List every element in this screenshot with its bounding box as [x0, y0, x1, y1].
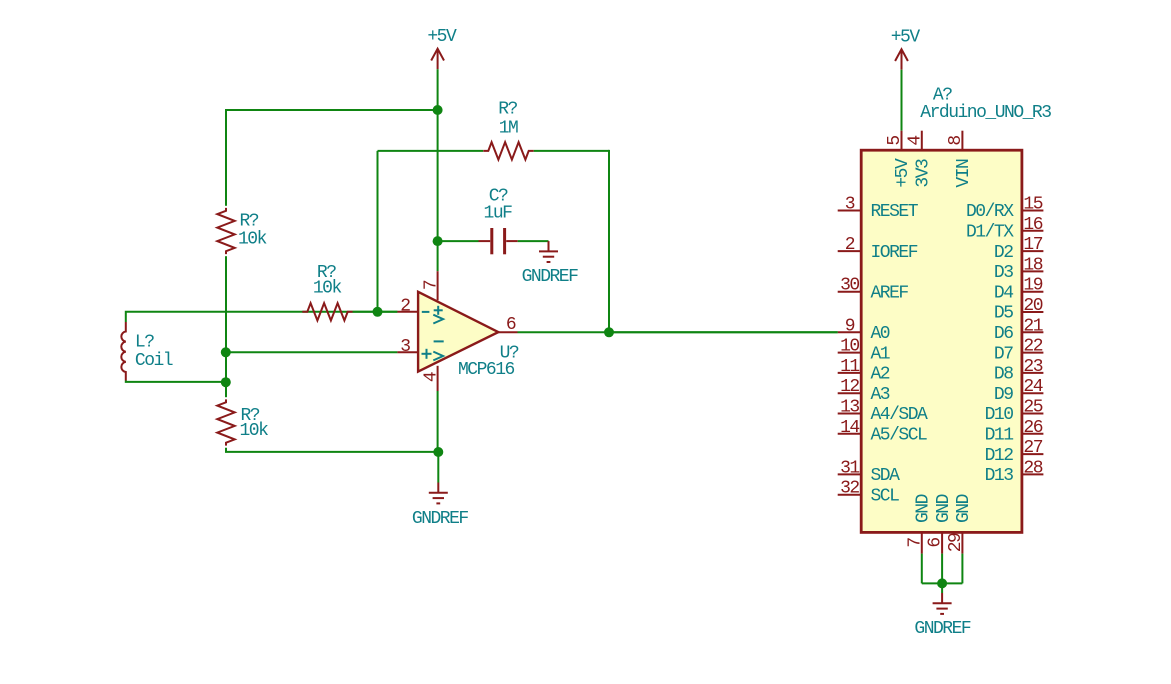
svg-text:31: 31 — [840, 458, 859, 478]
arduino right pin 28 stub — [1022, 473, 1044, 475]
resistor R3 10k (bottom-left) — [217, 399, 234, 445]
wire cap right — [518, 240, 549, 242]
wire 1M right horizontal — [534, 150, 609, 152]
wire R1 bottom to pin3 node — [225, 256, 227, 352]
svg-text:8: 8 — [946, 136, 966, 146]
junction pin2 node — [373, 307, 383, 317]
svg-text:21: 21 — [1023, 316, 1042, 336]
wire coil node to R3 — [225, 382, 227, 397]
wire gnd stub (op-amp) — [437, 452, 439, 483]
arduino left pin 9 stub — [838, 331, 862, 333]
arduino right pin 23 stub — [1022, 372, 1044, 374]
power +5V (left) — [437, 49, 439, 69]
wire output vertical — [608, 150, 610, 332]
arduino top pin 4 stub — [921, 131, 923, 151]
svg-text:D8: D8 — [994, 365, 1013, 385]
svg-text:Arduino_UNO_R3: Arduino_UNO_R3 — [920, 103, 1051, 123]
svg-text:VIN: VIN — [954, 159, 974, 188]
arduino left pin 2 stub — [838, 250, 862, 252]
wire v+ vertical — [437, 110, 439, 241]
wire gnd bus — [922, 582, 963, 584]
svg-text:16: 16 — [1023, 215, 1042, 235]
capacitor C1 plates — [490, 228, 493, 254]
svg-text:AREF: AREF — [871, 283, 909, 303]
wire R2 to pin2 junction — [353, 311, 398, 313]
svg-text:27: 27 — [1023, 438, 1042, 458]
svg-text:D4: D4 — [994, 283, 1013, 303]
op-amp pin 3 stub — [397, 351, 418, 353]
svg-text:MCP616: MCP616 — [458, 360, 515, 380]
wire cap left — [438, 240, 479, 242]
ground GNDREF (capacitor) — [548, 241, 550, 251]
op-amp pin2 name - — [422, 311, 430, 313]
wire op-amp output — [518, 331, 838, 333]
wire gnd pin29 down — [961, 554, 963, 584]
svg-text:19: 19 — [1023, 276, 1042, 296]
svg-text:GNDREF: GNDREF — [914, 619, 971, 639]
wire gnd pin7 down — [921, 554, 923, 584]
wire feedback top horizontal — [378, 150, 484, 152]
arduino right pin 24 stub — [1022, 392, 1044, 394]
svg-text:25: 25 — [1023, 398, 1042, 418]
arduino right pin 20 stub — [1022, 311, 1044, 313]
capacitor C1 leads — [479, 240, 491, 242]
svg-text:D1/TX: D1/TX — [966, 223, 1014, 243]
svg-text:A4/SDA: A4/SDA — [871, 405, 929, 425]
arduino bottom pin 29 stub — [961, 532, 963, 553]
wire left vertical upper — [225, 109, 227, 206]
svg-text:A0: A0 — [871, 324, 890, 344]
wire R3 bottom corner — [226, 448, 438, 452]
arduino left pin 32 stub — [838, 494, 862, 496]
svg-text:D5: D5 — [994, 304, 1013, 324]
svg-text:2: 2 — [845, 235, 855, 255]
arduino right pin 18 stub — [1022, 270, 1044, 272]
svg-text:1M: 1M — [499, 119, 518, 139]
svg-text:5: 5 — [885, 136, 905, 146]
arduino left pin 12 stub — [838, 392, 862, 394]
inductor L1 — [121, 322, 126, 381]
op-amp pin 2 stub — [397, 311, 418, 313]
svg-text:+5V: +5V — [891, 28, 921, 48]
svg-text:A1: A1 — [871, 344, 890, 364]
arduino right pin 21 stub — [1022, 331, 1044, 333]
svg-text:23: 23 — [1023, 357, 1042, 377]
op-amp pin4 name V- — [434, 340, 444, 342]
svg-text:2: 2 — [400, 296, 410, 316]
arduino right pin 19 stub — [1022, 291, 1044, 293]
svg-text:D0/RX: D0/RX — [966, 202, 1014, 222]
wire pin3 row — [226, 351, 398, 353]
svg-text:3: 3 — [400, 337, 410, 357]
arduino top pin 8 stub — [961, 131, 963, 151]
svg-text:SDA: SDA — [871, 466, 901, 486]
svg-text:30: 30 — [840, 276, 859, 296]
svg-text:R?: R? — [498, 100, 517, 120]
junction cap node — [433, 236, 443, 246]
arduino right pin 26 stub — [1022, 433, 1044, 435]
arduino left pin 30 stub — [838, 291, 862, 293]
arduino left pin 11 stub — [838, 372, 862, 374]
junction gnd node (op-amp) — [433, 447, 443, 457]
svg-text:13: 13 — [840, 398, 859, 418]
svg-text:D3: D3 — [994, 263, 1013, 283]
svg-text:D6: D6 — [994, 324, 1013, 344]
svg-text:26: 26 — [1023, 418, 1042, 438]
wire gnd node down — [941, 583, 943, 593]
wire feedback vertical — [377, 151, 379, 312]
svg-text:18: 18 — [1023, 255, 1042, 275]
wire output to A0 — [609, 331, 838, 333]
svg-text:22: 22 — [1023, 337, 1042, 357]
svg-text:10k: 10k — [313, 278, 342, 298]
arduino right pin 27 stub — [1022, 453, 1044, 455]
svg-text:14: 14 — [840, 418, 859, 438]
svg-text:Coil: Coil — [135, 351, 173, 371]
svg-text:GND: GND — [954, 494, 974, 523]
op-amp pin3 name + — [422, 353, 432, 355]
svg-text:3V3: 3V3 — [914, 159, 934, 188]
svg-text:3: 3 — [845, 195, 855, 215]
wire coil bottom corner — [126, 381, 226, 382]
svg-text:6: 6 — [506, 315, 516, 335]
op-amp pin7 name V+ — [434, 309, 443, 311]
svg-text:9: 9 — [845, 316, 855, 336]
svg-text:D12: D12 — [985, 446, 1014, 466]
arduino left pin 10 stub — [838, 352, 862, 354]
op-amp pin 7 stub — [437, 271, 439, 300]
svg-text:D2: D2 — [994, 243, 1013, 263]
svg-text:D13: D13 — [985, 466, 1014, 486]
svg-text:6: 6 — [926, 538, 946, 548]
svg-text:+5V: +5V — [427, 27, 457, 47]
junction +5V node — [433, 105, 443, 115]
resistor R4 1M (feedback) — [483, 142, 533, 159]
svg-text:17: 17 — [1023, 235, 1042, 255]
arduino bottom pin 6 stub — [941, 532, 943, 553]
wire pin4 down — [437, 391, 439, 452]
resistor R1 10k (top-left) — [217, 208, 234, 254]
svg-text:GNDREF: GNDREF — [412, 509, 469, 529]
svg-text:4: 4 — [421, 372, 441, 382]
svg-text:20: 20 — [1023, 296, 1042, 316]
svg-text:D7: D7 — [994, 344, 1013, 364]
ground GNDREF (arduino) — [941, 593, 943, 603]
resistor R2 10k (middle) — [302, 303, 352, 320]
wire +5V stem — [437, 69, 439, 110]
wire arduino +5V stem — [901, 70, 903, 131]
op-amp pin 6 stub — [498, 331, 517, 333]
svg-text:R?: R? — [240, 212, 259, 232]
op-amp U1 triangle — [418, 292, 498, 372]
svg-text:1uF: 1uF — [484, 204, 513, 224]
svg-text:29: 29 — [946, 533, 966, 552]
arduino left pin 3 stub — [838, 210, 862, 212]
junction output node — [604, 327, 614, 337]
arduino bottom pin 7 stub — [921, 532, 923, 553]
arduino left pin 31 stub — [838, 473, 862, 475]
arduino right pin 17 stub — [1022, 250, 1044, 252]
svg-text:GND: GND — [934, 494, 954, 523]
svg-text:24: 24 — [1023, 377, 1042, 397]
svg-text:IOREF: IOREF — [871, 243, 918, 263]
svg-text:RESET: RESET — [871, 202, 919, 222]
svg-text:28: 28 — [1023, 458, 1042, 478]
svg-text:10k: 10k — [238, 230, 267, 250]
svg-text:L?: L? — [135, 332, 154, 352]
svg-text:D9: D9 — [994, 385, 1013, 405]
svg-text:15: 15 — [1023, 195, 1042, 215]
svg-text:12: 12 — [840, 377, 859, 397]
arduino right pin 22 stub — [1022, 352, 1044, 354]
svg-text:32: 32 — [840, 479, 859, 499]
op-amp pin 4 stub — [437, 366, 439, 391]
svg-text:GNDREF: GNDREF — [522, 267, 579, 287]
svg-text:D11: D11 — [985, 426, 1014, 446]
svg-text:A5/SCL: A5/SCL — [871, 426, 928, 446]
wire coil top corner — [126, 312, 398, 322]
svg-text:GND: GND — [914, 494, 934, 523]
svg-text:D10: D10 — [985, 405, 1014, 425]
wire top horizontal — [226, 109, 438, 111]
svg-text:+5V: +5V — [893, 158, 913, 188]
arduino right pin 15 stub — [1022, 210, 1044, 212]
junction pin3 node — [221, 347, 231, 357]
arduino left pin 13 stub — [838, 413, 862, 415]
junction coil bottom — [221, 377, 231, 387]
svg-text:A3: A3 — [871, 385, 890, 405]
arduino right pin 16 stub — [1022, 230, 1044, 232]
svg-text:SCL: SCL — [871, 486, 900, 506]
svg-text:4: 4 — [905, 136, 925, 146]
svg-text:A2: A2 — [871, 365, 890, 385]
svg-text:7: 7 — [421, 280, 441, 290]
arduino top pin 5 stub — [901, 131, 903, 151]
wire cap node to pin7 — [437, 241, 439, 271]
svg-text:10k: 10k — [240, 421, 269, 441]
arduino left pin 14 stub — [838, 433, 862, 435]
wire pin3 node to coil node — [225, 352, 227, 382]
arduino A1 body — [861, 150, 1022, 532]
power +5V (arduino) — [901, 49, 903, 69]
ground GNDREF (op-amp) — [437, 483, 439, 493]
svg-text:11: 11 — [840, 357, 859, 377]
arduino right pin 25 stub — [1022, 413, 1044, 415]
svg-text:10: 10 — [840, 337, 859, 357]
junction gnd node (arduino) — [937, 578, 947, 588]
wire gnd pin6 down — [941, 554, 943, 584]
svg-text:7: 7 — [905, 538, 925, 548]
